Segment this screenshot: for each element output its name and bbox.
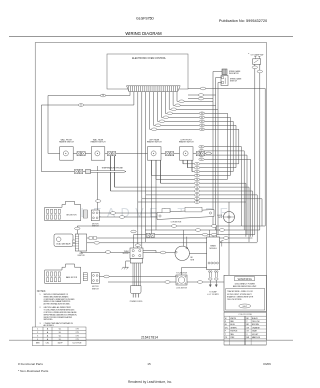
wire burner circuit row y191 (111, 156, 253, 237)
svg-text:UL: UL (59, 336, 61, 338)
svg-text:VIOLET: VIOLET (252, 334, 259, 336)
connector plug p8 (159, 120, 164, 123)
electronic oven control U1 (107, 54, 188, 89)
spark module U2 (207, 237, 224, 296)
connector plug aux 150.9 (199, 150, 204, 153)
connector plug m226a (171, 225, 176, 228)
svg-text:216417814: 216417814 (141, 336, 158, 340)
wire speed bake switch feed 2 (218, 83, 221, 235)
connector plug m236 (223, 237, 228, 240)
oven lamp switch S6 (248, 52, 263, 65)
svg-text:GREEN: GREEN (230, 327, 237, 329)
connector hatched A (83, 210, 87, 218)
svg-text:PURPLE: PURPLE (230, 331, 238, 333)
wire EOC pin6 fanout row y129.3 (150, 92, 239, 164)
connector plug r98.6 (198, 97, 203, 100)
svg-text:SERVICING.: SERVICING. (44, 319, 54, 321)
svg-text:ELECTRONIC OVEN CONTROL: ELECTRONIC OVEN CONTROL (132, 58, 167, 60)
wire deep row y194.9 bus (237, 195, 258, 242)
connector plug aux 155.1 (199, 154, 204, 157)
svg-text:OV LAMP SW: OV LAMP SW (251, 53, 264, 56)
connector plug mtr (160, 251, 165, 254)
wire oven circuit row y230 (145, 229, 260, 231)
svg-text:BLACK: BLACK (252, 317, 259, 320)
infinite switch S4 LEFT FRONT (179, 139, 194, 160)
connector plug p9 (163, 116, 168, 119)
svg-text:SWITCH: SWITCH (92, 226, 99, 228)
wire deep row y202 bus (229, 201, 246, 203)
svg-text:IGNITOR: IGNITOR (77, 255, 85, 257)
wire term block to motor (143, 251, 156, 253)
wire aux row y150.9 (200, 151, 245, 230)
dual gas valve V1 (54, 234, 73, 246)
wire EOC pin12 fanout row y105.3 (173, 92, 216, 105)
connector plug row 198.8 (194, 197, 199, 200)
svg-text:GLGFS75D: GLGFS75D (136, 17, 154, 21)
svg-text:#73: #73 (75, 332, 78, 334)
wire burner circuit row y187.1 (115, 156, 250, 242)
svg-text:113: 113 (201, 113, 204, 115)
connector plug aux 146.7 (199, 145, 204, 148)
connector plug p13 (179, 100, 184, 103)
diagram border frame (35, 43, 266, 341)
connector plug low 167.7 (194, 166, 199, 169)
wire switch pins down (111, 156, 193, 191)
wire L1 feed to terminal block (137, 202, 139, 248)
wire motor to spark module (189, 252, 206, 254)
color code table (224, 312, 266, 345)
speed bake switch S5 (221, 76, 242, 86)
connector plug low 183.2 (194, 182, 199, 185)
wire gas valve row y242 (87, 242, 258, 244)
connector plug p12 (175, 104, 180, 107)
svg-text:UL: UL (59, 329, 61, 331)
wire speed bake switch feed bus (216, 78, 221, 231)
wire EOC right edge row y98.6 (188, 98, 213, 100)
svg-text:# Functional Parts: # Functional Parts (18, 362, 43, 366)
svg-text:74: 74 (196, 179, 198, 181)
svg-text:UL STYLE: UL STYLE (73, 342, 83, 344)
wire label tags (89, 237, 97, 240)
wire lamp line 1 (254, 64, 256, 234)
wire EOC pin11 fanout row y109.3 (169, 92, 218, 109)
connector plug r88.5 (200, 87, 205, 90)
svg-text:46: 46 (201, 146, 203, 148)
wire ground lead (126, 261, 131, 267)
svg-text:73: 73 (102, 95, 104, 97)
connector plug a1 (110, 212, 115, 215)
svg-text:59: 59 (201, 159, 203, 161)
oven motor B3 (175, 246, 195, 261)
svg-text:71: 71 (196, 167, 198, 169)
wire ignitor stub (76, 226, 78, 234)
svg-text:HEATER SWITCH: HEATER SWITCH (147, 141, 162, 144)
wire surface switch line L (48, 152, 212, 154)
connector plug m234b (211, 233, 216, 236)
wire aux row y146.7 (200, 147, 242, 226)
wire oven circuit row y226 (77, 225, 265, 227)
connector J4 after left front switch (196, 152, 204, 156)
connector plug lamp1 (252, 66, 257, 69)
footer rule (9, 339, 293, 341)
broil motor switch S7 (91, 210, 99, 228)
wire lamp line 2 (259, 64, 261, 230)
connector plug mid 125.3 (199, 124, 204, 127)
wire EOC pin13 fanout row y101.3 (177, 92, 213, 101)
wire EOC right edge row y88.5 (188, 89, 265, 227)
wire oven circuit row y234.6 (134, 234, 255, 236)
svg-text:ORANGE: ORANGE (252, 326, 261, 329)
notes block (37, 290, 78, 327)
svg-text:BLUE: BLUE (230, 324, 235, 326)
svg-text:HEATER SWITCH: HEATER SWITCH (179, 141, 194, 144)
connector plug aux 159.3 (199, 158, 204, 161)
connector plug a1b (119, 216, 124, 219)
svg-text:BAKE MOTOR: BAKE MOTOR (66, 276, 78, 279)
svg-text:WIRING DIAGRAM: WIRING DIAGRAM (125, 31, 162, 36)
connector plug 15 (206, 152, 211, 155)
svg-text:YELLOW STRIPE.: YELLOW STRIPE. (227, 299, 242, 301)
svg-text:73: 73 (196, 175, 198, 177)
connector plug low 175.5 (194, 174, 199, 177)
connector plug b1 (104, 275, 109, 278)
door latch motor assembly B5 (157, 207, 214, 223)
valve connector J6 (73, 240, 76, 246)
connector plug low 187.1 (194, 186, 199, 189)
connector plug mid 117.3 (199, 116, 204, 119)
bake motor switch S8 (91, 273, 99, 291)
wire temperature probe line (41, 171, 86, 173)
connector plug low 179.4 (194, 178, 199, 181)
svg-text:NOTES:: NOTES: (37, 290, 47, 293)
wire EOC pin3 down to row y202 (138, 92, 229, 202)
svg-text:2.: 2. (40, 307, 42, 309)
connector plug low 171.6 (194, 170, 199, 173)
door motor B6 (217, 212, 234, 223)
svg-text:BEFORE SERVICING UNIT.: BEFORE SERVICING UNIT. (233, 286, 257, 288)
wire lock motor up (182, 268, 207, 276)
connector plug 73 (100, 94, 105, 97)
connector plug v2 (94, 241, 99, 244)
svg-text:POWER CORD: POWER CORD (130, 301, 143, 303)
wire burner circuit row y163.8 (183, 160, 239, 164)
connector J3 between left switches (166, 152, 174, 156)
svg-text:76: 76 (196, 187, 198, 189)
bake motor B2 (45, 264, 81, 283)
connector plug m242b (215, 241, 220, 244)
svg-text:125: 125 (201, 125, 204, 127)
svg-text:GRAY: GRAY (252, 330, 258, 333)
svg-text:03/06: 03/06 (263, 362, 271, 366)
connector plug p7 (155, 124, 160, 127)
wire burner circuit row y175.5 (152, 160, 231, 175)
svg-text:70: 70 (196, 164, 198, 166)
connector plug low 191 (194, 190, 199, 193)
wire motor stubs (183, 230, 186, 247)
svg-text:DUAL GAS VALVE: DUAL GAS VALVE (56, 243, 71, 246)
wire burner circuit row y167.7 (188, 160, 237, 168)
svg-text:BL: BL (225, 324, 227, 326)
wire EOC pin8 fanout row y121.3 (157, 92, 233, 172)
svg-text:1: 1 (37, 329, 38, 331)
wire broil motor switch out2 (99, 216, 157, 218)
connector plug r95 (198, 94, 203, 97)
connector plug m234 (202, 233, 207, 236)
wire deep row y198.8 bus (234, 199, 263, 226)
connector plug m230b (219, 229, 224, 232)
svg-text:YELLOW: YELLOW (252, 321, 260, 323)
wire broil motor switch out1 (99, 212, 157, 214)
svg-text:AS THE ORIGINAL MUST BE USED.: AS THE ORIGINAL MUST BE USED. (44, 303, 71, 306)
wire EOC pin9 fanout row y117.3 (161, 92, 230, 176)
wire lock motor row y278 (99, 275, 176, 277)
wire probe to broil switch (97, 166, 99, 210)
chassis ground GND (122, 267, 129, 269)
connector J1 between wall switches (77, 152, 85, 156)
svg-text:WARNING: WARNING (238, 277, 253, 281)
svg-text:COLOR CODE: COLOR CODE (238, 314, 252, 316)
svg-text:129: 129 (201, 129, 204, 131)
temperature probe PR1 (86, 169, 127, 173)
connector plug a2 (96, 200, 101, 203)
svg-text:2: 2 (37, 332, 38, 334)
wire feed to terminal block 3 (145, 195, 147, 242)
wire EOC pin10 fanout row y113.3 (165, 92, 227, 179)
connector plug 164 (75, 227, 80, 230)
wire N feed to terminal block (141, 199, 143, 248)
wire speed bake indicator feed bus (213, 72, 222, 227)
svg-text:21: 21 (80, 105, 82, 107)
wire latch feed 2 (155, 179, 157, 230)
svg-text:UL: UL (59, 332, 61, 334)
svg-text:1.: 1. (40, 294, 42, 296)
wire EOC pin4 down to row y198.8 (142, 92, 234, 199)
svg-text:EXAMPLE: GREEN WIRE WITH: EXAMPLE: GREEN WIRE WITH (227, 295, 254, 298)
power cord W1 (130, 259, 143, 303)
wire spark module top pins (210, 226, 217, 237)
connector plug m230a (195, 229, 200, 232)
svg-text:HEATER SWITCH: HEATER SWITCH (59, 141, 74, 144)
wire EOC pin2 to left bus L2 (41, 92, 133, 172)
connector plug p6 (151, 128, 156, 131)
speed bake indicator DS1 (222, 69, 241, 75)
svg-text:BRL MOTOR: BRL MOTOR (67, 214, 78, 216)
connector plug 21 (78, 104, 83, 107)
infinite switch S2 WALL REAR (91, 138, 106, 160)
svg-text:3: 3 (37, 336, 38, 338)
connector plug 200 (197, 281, 202, 284)
connector plug tb1 (131, 230, 136, 233)
svg-text:75: 75 (196, 183, 198, 185)
svg-text:117: 117 (201, 117, 204, 119)
connector plug mid 121.3 (199, 120, 204, 123)
terminal block TB1 (123, 248, 143, 259)
svg-text:62: 62 (196, 195, 198, 197)
svg-text:HEATER SWITCH: HEATER SWITCH (91, 141, 106, 144)
svg-text:Rendered by LeadVenture, Inc.: Rendered by LeadVenture, Inc. (128, 380, 172, 384)
wire EOC pin7 fanout row y125.3 (154, 92, 237, 168)
wire door motor up (228, 202, 230, 212)
wire bottom row y282 (108, 281, 229, 283)
wire burner circuit row y171.6 (192, 160, 233, 171)
svg-text:3.: 3. (40, 323, 42, 325)
burner rating table (32, 327, 86, 346)
svg-text:ALL MODELS.: ALL MODELS. (44, 324, 55, 327)
svg-text:MODULE: MODULE (209, 248, 217, 250)
wire burner circuit row y183.2 (161, 160, 246, 237)
svg-text:& L.T OR MTR: & L.T OR MTR (207, 294, 219, 296)
connector plug lamp2 (257, 70, 262, 73)
svg-text:61: 61 (196, 199, 198, 201)
wire EOC pin5 down to row y194.9 (146, 92, 237, 195)
infinite switch S3 LEFT REAR (147, 138, 162, 160)
svg-text:TRACER WIRE - WIRE COLOR: TRACER WIRE - WIRE COLOR (227, 290, 253, 293)
warning box (224, 275, 266, 311)
svg-text:TEMPERATURE PROBE: TEMPERATURE PROBE (102, 167, 124, 170)
wire gas valve row y236.7 (87, 237, 253, 239)
connector plug low 163.8 (194, 162, 199, 165)
svg-text:MTR: MTR (191, 259, 195, 261)
svg-text:Publication No: 5995432720: Publication No: 5995432720 (219, 19, 267, 23)
wire EOC pin1 to left bus L1 (48, 92, 130, 153)
svg-text:15: 15 (147, 362, 151, 366)
connector plug row 202 (194, 201, 199, 204)
wire burner circuit row y179.4 (156, 160, 228, 179)
wire latch feed 1 (151, 176, 153, 234)
svg-text:SWITCH: SWITCH (230, 81, 238, 83)
connector plug mid 113.3 (199, 112, 204, 115)
svg-text:LOW MOTOR: LOW MOTOR (171, 222, 182, 224)
svg-text:BROWN: BROWN (252, 324, 260, 326)
svg-text:121: 121 (201, 121, 204, 123)
svg-text:* Non-Illustrated Parts: * Non-Illustrated Parts (18, 369, 49, 373)
lock motor B4 (176, 272, 188, 290)
connector plug m226b (211, 225, 216, 228)
svg-text:#73: #73 (75, 329, 78, 331)
wire aux row y159.3 (200, 159, 251, 236)
svg-text:GN-Y: GN-Y (243, 306, 248, 308)
svg-text:#73: #73 (75, 336, 78, 338)
EOC edge connector P1 (127, 86, 181, 92)
wire EOC right edge row y95 (188, 94, 216, 96)
wire spark module row y252 (81, 251, 175, 253)
wire aux row y155.1 (200, 155, 248, 235)
connector plug 115 (105, 251, 110, 254)
broil motor B1 (45, 201, 81, 220)
connector plug p10 (167, 112, 172, 115)
svg-text:60: 60 (196, 202, 198, 204)
connector twist J7 (147, 233, 155, 237)
oven ignitor HTR1 (75, 234, 86, 257)
connector plug p11 (171, 108, 176, 111)
connector plug tb2 (135, 244, 140, 247)
svg-text:150°F: 150°F (57, 342, 63, 344)
svg-text:W: W (225, 318, 227, 320)
svg-text:77: 77 (196, 191, 198, 193)
svg-text:SWITCH: SWITCH (92, 288, 99, 290)
connector J5 probe (75, 169, 83, 173)
svg-text:WHITE: WHITE (230, 318, 237, 320)
connector plug row 194.9 (194, 194, 199, 197)
header rule (9, 36, 293, 38)
svg-text:INDICATOR: INDICATOR (229, 72, 239, 75)
connector hatched B (83, 273, 87, 281)
wire door motor down (228, 223, 230, 283)
infinite switch S1 WALL FRONT (59, 138, 74, 160)
connector plug 167 (165, 281, 170, 284)
connector plug mid 129.3 (199, 128, 204, 131)
svg-text:BLOCK: BLOCK (123, 253, 130, 255)
wire row202 ext (228, 201, 230, 203)
svg-text:LOCK MOTOR: LOCK MOTOR (176, 288, 188, 290)
svg-text:CKL: CKL (46, 342, 50, 344)
connector J2 after wall rear switch (108, 152, 116, 156)
svg-text:72: 72 (196, 171, 198, 173)
svg-text:*: * (248, 52, 249, 56)
svg-text:MAROON: MAROON (252, 336, 261, 339)
wire feed to terminal block 4 (133, 235, 135, 248)
